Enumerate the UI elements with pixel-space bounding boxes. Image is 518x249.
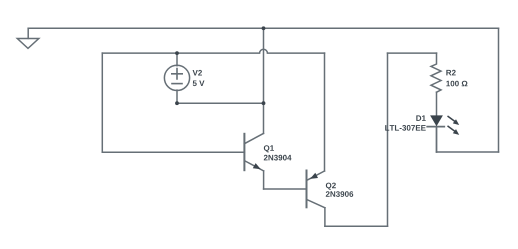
LED D1 cathode bar [427,126,444,128]
wire Q2 collector bottom run [325,225,388,227]
label 100 ohm [446,81,467,87]
junction dot collector net [262,101,266,105]
label 2N3906 [326,191,353,197]
wire V2 bottom to collector net [177,102,264,104]
wire top ground rail [28,27,498,29]
wire Q2 collector vertical [324,208,326,226]
wire collector riser to R2 [387,53,389,226]
wire Q1 collector vertical [263,28,265,133]
label Q2 [326,183,336,190]
Q2 emitter arrow [310,173,318,179]
label Q1 [264,145,274,152]
junction dot top rail / Q1 collector [262,26,266,30]
label D1 [416,115,425,121]
wire V2 top rail with hop [102,49,324,53]
LED light arrow 1 [448,116,460,125]
wire LED cathode stub [436,127,438,152]
label 2N3904 [264,155,292,161]
wire Q1 base [102,151,244,153]
wire right edge [498,28,500,152]
LED light arrow 2 [448,126,460,135]
wire Q1 emitter to Q2 base [264,188,307,190]
wire V2 top stub [176,53,178,66]
wire R2 feed [388,52,437,54]
transistor Q1 [244,133,263,171]
wire V2 bottom stub [176,90,178,103]
label V2 [193,70,202,76]
junction dot V2 bottom [175,101,179,105]
wire left loop vertical [101,53,103,152]
transistor Q2 [307,171,325,208]
wire bottom right [437,151,499,153]
resistor R2 [431,53,441,92]
wire R2 to LED [436,92,438,115]
voltage source V2 [164,65,189,90]
ground [17,28,39,48]
wire Q2 emitter vertical [324,53,326,171]
wire LED cathode riser [436,127,438,152]
wire Q1 emitter vertical [263,171,265,189]
Q1 emitter arrow [253,163,261,169]
junction dot V2 top [175,51,179,55]
label 5 V [193,81,205,87]
LED D1 triangle [430,115,443,126]
label LTL-307EE [385,125,426,131]
label R2 [446,70,455,76]
